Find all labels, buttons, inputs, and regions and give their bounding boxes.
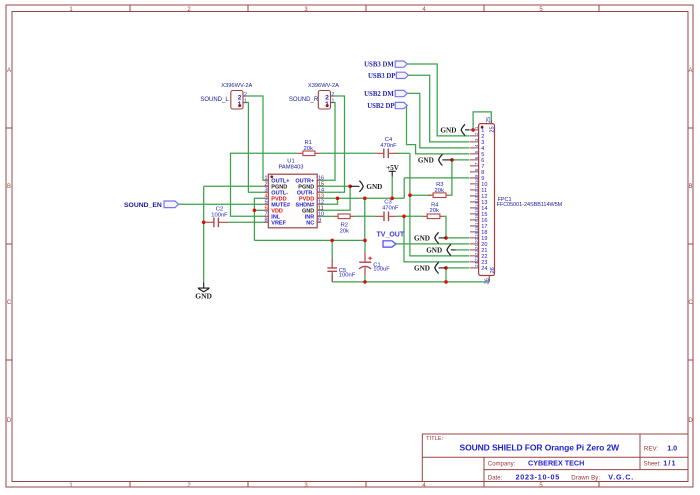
- svg-text:B: B: [7, 184, 11, 190]
- svg-text:C: C: [688, 300, 693, 306]
- wire junction down to FPC pin23: [404, 216, 470, 262]
- wire R1 row to INL: [231, 153, 298, 216]
- svg-text:24: 24: [481, 266, 487, 272]
- wire R1 right to C4: [320, 152, 375, 154]
- port TV_OUT: [377, 232, 405, 248]
- svg-text:PAM8403: PAM8403: [278, 164, 303, 170]
- svg-text:GND: GND: [414, 235, 430, 243]
- svg-text:20k: 20k: [304, 146, 313, 152]
- wire C3 right through junction to R4: [397, 215, 422, 217]
- node +5V-PVDD: [390, 197, 394, 201]
- border ticks bottom: [130, 482, 599, 488]
- wire SHDN# jog: [321, 198, 338, 204]
- resistor R4: [422, 202, 444, 218]
- svg-text:2: 2: [244, 92, 247, 98]
- capacitor C2 100nF: [205, 207, 228, 228]
- wire PGND row from GND vertical: [204, 185, 265, 187]
- svg-text:1/1: 1/1: [663, 458, 676, 467]
- svg-text:VREF: VREF: [271, 220, 286, 226]
- svg-text:A: A: [7, 68, 11, 74]
- wire GND vertical left: [203, 186, 205, 282]
- wire USB2 DP to FPC pin5: [406, 106, 469, 154]
- svg-text:20k: 20k: [430, 208, 439, 214]
- svg-text:11: 11: [474, 184, 479, 189]
- node C-row tap: [363, 197, 367, 201]
- svg-text:12: 12: [474, 190, 479, 196]
- svg-text:100uF: 100uF: [373, 267, 390, 273]
- svg-text:D: D: [7, 418, 12, 424]
- svg-text:17: 17: [474, 220, 479, 226]
- svg-text:24: 24: [474, 262, 479, 268]
- svg-text:470nF: 470nF: [382, 206, 399, 212]
- svg-text:V.G.C.: V.G.C.: [608, 472, 634, 481]
- svg-text:23: 23: [474, 256, 479, 262]
- svg-text:SOUND SHIELD FOR Orange Pi Zer: SOUND SHIELD FOR Orange Pi Zero 2W: [460, 442, 621, 452]
- blue inside pin numbers: [481, 126, 496, 273]
- node GND pin19: [444, 236, 448, 240]
- wire R4 right corner down to pin19: [445, 216, 446, 238]
- wire PVDD row down to C-row: [364, 198, 366, 240]
- svg-text:USB2 DP: USB2 DP: [367, 103, 394, 110]
- svg-text:Company:: Company:: [488, 462, 516, 468]
- wire PVDD pin4 loop: [254, 198, 264, 240]
- right pin names: [295, 178, 314, 226]
- node R3 left: [408, 193, 412, 197]
- svg-text:GND: GND: [426, 247, 442, 255]
- svg-text:REV:: REV:: [644, 445, 658, 452]
- svg-text:14: 14: [474, 202, 479, 208]
- svg-text:1: 1: [474, 126, 479, 129]
- svg-text:Drawn By:: Drawn By:: [571, 475, 600, 482]
- wire GND loop to FPC pin25: [473, 112, 491, 130]
- node GND pin6: [450, 158, 454, 162]
- node GND pin24: [444, 266, 448, 270]
- svg-text:9: 9: [474, 174, 479, 177]
- svg-text:4: 4: [474, 144, 479, 147]
- svg-text:26: 26: [490, 267, 496, 273]
- svg-text:GND: GND: [418, 157, 434, 165]
- svg-text:A: A: [688, 68, 692, 74]
- port USB2 DP: [367, 102, 407, 110]
- svg-text:100nF: 100nF: [211, 213, 228, 219]
- node INR-R4: [402, 215, 406, 219]
- IC U1 PAM8403: [264, 158, 324, 227]
- wire GND24 down to bottom rail: [445, 268, 447, 282]
- svg-text:B: B: [688, 184, 692, 190]
- wire GND to FPC pin1: [468, 129, 470, 131]
- svg-text:20: 20: [474, 238, 479, 244]
- svg-text:SOUND_R: SOUND_R: [289, 97, 319, 103]
- node C1 top: [363, 239, 367, 243]
- resistor R2: [333, 214, 355, 235]
- wire GND to FPC pin24: [446, 267, 470, 269]
- svg-text:CYBEREX TECH: CYBEREX TECH: [528, 458, 584, 467]
- connector SOUND_R X396WV-2A: [289, 83, 339, 109]
- svg-text:+5V: +5V: [386, 164, 399, 172]
- svg-text:20k: 20k: [435, 188, 444, 194]
- svg-text:15: 15: [474, 208, 479, 214]
- node GND pin1: [471, 128, 475, 132]
- port USB2 DM: [364, 90, 407, 98]
- svg-text:8: 8: [265, 218, 268, 224]
- svg-text:D: D: [688, 418, 693, 424]
- capacitor C1 100uF polarized: [359, 253, 390, 276]
- svg-text:TV_OUT: TV_OUT: [377, 232, 405, 239]
- border ticks right: [688, 128, 693, 360]
- wire GND to FPC pin19: [446, 237, 470, 239]
- capacitor C4 470nF: [375, 137, 398, 158]
- svg-text:SOUND_L: SOUND_L: [200, 97, 229, 103]
- svg-text:5: 5: [474, 150, 479, 153]
- svg-text:6: 6: [474, 156, 479, 159]
- svg-text:13: 13: [474, 196, 479, 202]
- pin stubs left 1-24: [470, 120, 491, 282]
- border ticks top: [130, 5, 599, 12]
- wire VDD pin6 branch: [254, 209, 264, 211]
- wire GND21 to FPC pin21: [455, 249, 470, 251]
- port USB3 DP: [368, 72, 408, 80]
- svg-text:USB3 DM: USB3 DM: [364, 62, 394, 69]
- wire SOUND_L pin1 to U1 OUTL-: [243, 103, 265, 193]
- wire C2 right to VREF: [228, 221, 264, 223]
- svg-text:22: 22: [474, 250, 479, 256]
- svg-text:470nF: 470nF: [380, 143, 397, 149]
- svg-text:Sheet:: Sheet:: [644, 461, 662, 467]
- ground port GND at FPC pin21 (points left): [426, 244, 455, 255]
- wire C2 left: [204, 221, 205, 223]
- wire +5V symbol tail: [391, 177, 393, 199]
- left pin numbers: [265, 176, 268, 224]
- ground port GND at U1 pin15 (points right): [350, 181, 382, 192]
- left pin names: [271, 178, 290, 226]
- pin stubs right: [317, 180, 321, 222]
- svg-text:100nF: 100nF: [339, 273, 356, 279]
- wire R3 left to C4 vertical: [410, 194, 431, 196]
- connector FPC1 FFC05001-24SBB114W5M: [470, 117, 563, 285]
- right pin numbers: [318, 176, 324, 224]
- wire C5 bottom: [331, 274, 333, 282]
- svg-text:GND: GND: [366, 183, 382, 191]
- svg-text:9: 9: [318, 218, 321, 224]
- wire +5V rail down to PVDD row: [403, 178, 405, 198]
- wire C4 right to corner: [398, 152, 410, 154]
- svg-text:10: 10: [474, 178, 479, 184]
- resistor R3: [428, 182, 449, 197]
- svg-text:C: C: [7, 300, 12, 306]
- border ticks left: [6, 128, 12, 360]
- wire C1 top: [364, 240, 366, 252]
- svg-text:25: 25: [486, 117, 492, 123]
- ground port GND at FPC pin6 (points left): [418, 154, 452, 165]
- svg-text:X396WV-2A: X396WV-2A: [221, 83, 252, 89]
- svg-text:1: 1: [332, 98, 335, 104]
- wire GND to FPC pin6: [452, 159, 469, 161]
- ground port GND at FPC pin24 (points left): [414, 262, 446, 273]
- wire SOUND_R pin2 to U1 OUTR-: [321, 96, 345, 192]
- node rail-GND24: [444, 280, 448, 284]
- power +5V: [386, 164, 399, 177]
- ground port GND at FPC pin1 (points left): [440, 124, 469, 135]
- connector SOUND_L X396WV-2A: [200, 83, 252, 109]
- node PGND15: [348, 185, 352, 189]
- ground GND bottom-left: [195, 282, 212, 300]
- node PVDD-VDD: [253, 209, 257, 213]
- resistor R1: [297, 140, 320, 155]
- wire PVDD row: [321, 197, 404, 199]
- svg-text:USB2 DM: USB2 DM: [364, 91, 394, 98]
- wire bottom ground rail: [332, 281, 489, 283]
- svg-text:Date:: Date:: [488, 475, 503, 481]
- svg-text:GND: GND: [440, 127, 456, 135]
- svg-text:GND: GND: [414, 265, 430, 273]
- port USB3 DM: [364, 61, 407, 69]
- wire +5V rail FPC pin9: [404, 177, 469, 179]
- wire PGND15 down to GND11: [321, 186, 350, 210]
- wire USB2 DM to FPC pin4: [407, 93, 469, 147]
- blue rotated outside pin numbers 1-24: [474, 117, 492, 285]
- svg-text:26: 26: [485, 278, 491, 284]
- svg-text:GND: GND: [195, 291, 212, 300]
- wire USB3 DP to FPC pin3: [408, 75, 469, 142]
- port SOUND_EN: [124, 201, 179, 209]
- pin stub 25 top: [490, 120, 492, 124]
- wire C4 vertical down to FPC pin22: [410, 153, 470, 256]
- svg-text:TITLE:: TITLE:: [426, 436, 444, 442]
- svg-text:3: 3: [474, 138, 479, 141]
- capacitor C5 100nF: [327, 259, 355, 282]
- svg-text:16: 16: [474, 214, 479, 220]
- wire VDD/PVDD cap row: [254, 239, 365, 241]
- svg-text:1.0: 1.0: [667, 443, 677, 452]
- wire C5 top: [331, 240, 333, 258]
- node C5 top: [330, 239, 334, 243]
- capacitor C3 470nF: [375, 200, 399, 222]
- svg-text:2: 2: [332, 92, 335, 98]
- svg-text:19: 19: [474, 232, 479, 238]
- pin stubs left: [264, 180, 268, 222]
- svg-text:USB3 DP: USB3 DP: [368, 73, 395, 80]
- node SHDN tap: [336, 197, 340, 201]
- svg-text:NC: NC: [306, 220, 314, 226]
- svg-text:7: 7: [474, 162, 479, 165]
- wire SOUND_L pin2 to U1 OUTL+: [243, 96, 265, 180]
- wire SOUND_EN to MUTE#: [179, 203, 265, 205]
- node C2-GND: [202, 221, 206, 225]
- svg-text:X396WV-2A: X396WV-2A: [308, 83, 339, 89]
- svg-text:FFC05001-24SBB114W5M: FFC05001-24SBB114W5M: [497, 202, 563, 208]
- ground port GND at FPC pin19 (points left): [414, 232, 446, 243]
- svg-text:SOUND_EN: SOUND_EN: [124, 202, 162, 209]
- svg-text:21: 21: [474, 244, 479, 250]
- svg-text:2: 2: [474, 132, 479, 135]
- wire PGND15 to GND port: [321, 185, 350, 187]
- wire USB3 DM to FPC pin2: [407, 64, 469, 136]
- node rail-C1: [363, 280, 367, 284]
- svg-text:20k: 20k: [340, 229, 349, 235]
- pin stub 26 bottom: [488, 276, 490, 282]
- wire INR row left: [321, 215, 333, 217]
- wire TV_OUT to FPC pin20: [396, 243, 470, 245]
- title block outline: [422, 434, 688, 482]
- wire FPC pin6 to R3 right: [449, 160, 452, 195]
- wire SOUND_R pin1 to U1 OUTR+: [321, 103, 335, 181]
- wire R2 right to C3: [355, 215, 375, 217]
- svg-text:1: 1: [244, 98, 247, 104]
- wire FPC pin26 stub join: [488, 278, 490, 282]
- svg-text:18: 18: [474, 226, 479, 232]
- svg-text:2023-10-05: 2023-10-05: [516, 472, 561, 481]
- wire C1 bottom: [364, 275, 366, 282]
- svg-text:25: 25: [489, 126, 495, 132]
- svg-text:8: 8: [474, 168, 479, 171]
